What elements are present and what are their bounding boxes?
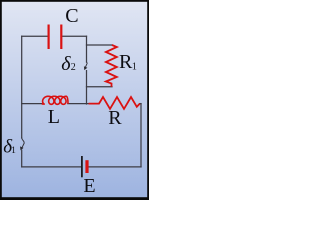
svg-text:R: R xyxy=(108,107,122,129)
svg-text:R: R xyxy=(119,51,133,73)
svg-text:δ: δ xyxy=(61,53,71,75)
svg-text:L: L xyxy=(48,106,60,128)
svg-text:1: 1 xyxy=(132,61,137,72)
svg-text:C: C xyxy=(65,5,78,27)
svg-text:2: 2 xyxy=(71,62,76,73)
svg-text:E: E xyxy=(83,175,95,197)
svg-text:1: 1 xyxy=(11,146,16,156)
